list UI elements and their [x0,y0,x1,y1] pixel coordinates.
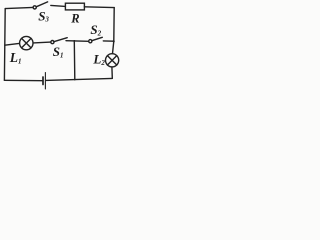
svg-text:L2: L2 [92,51,105,66]
svg-text:L1: L1 [9,50,22,65]
svg-text:S2: S2 [90,22,101,37]
svg-text:S3: S3 [38,8,49,23]
svg-text:S1: S1 [53,44,64,59]
svg-text:R: R [70,11,79,25]
